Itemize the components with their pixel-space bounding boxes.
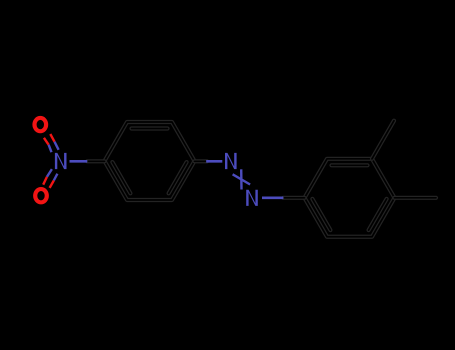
nitro double bond O2=N lower: line b red half (50, 181, 54, 188)
nitro double bond O1=N upper: line b red half (50, 134, 54, 142)
nitro double bond O2=N lower: line a blue half (47, 169, 52, 177)
atom N nitro (55, 153, 67, 169)
nitro double bond O2=N lower: line a red half (43, 177, 47, 185)
bond N2-ring2 carbon half (ghost) (283, 196, 304, 200)
azo crossed double bond N1=N2: line b (shallow diagonal) (233, 174, 251, 184)
bond N(nitro)-ring1 nitrogen half (blue) (70, 160, 88, 163)
nitro double bond O2=N lower: line b blue half (54, 174, 58, 181)
nitro double bond O1=N upper: line b blue half (55, 142, 59, 150)
azo crossed double bond N1=N2: line a (vertical) (240, 169, 243, 189)
bond N(nitro)-ring1 carbon half (ghost) (87, 159, 104, 163)
nitro double bond O1=N upper: line a red half (44, 138, 49, 145)
methyl stub on ring2 right vertex (395, 196, 437, 200)
methyl stub on ring2 top-right vertex (372, 121, 394, 159)
ring benzene 1 (ghost carbon skeleton with kekule double bonds) (105, 122, 195, 200)
atom O2 (lower oxygen) (33, 187, 49, 204)
atom O1 (upper oxygen) (32, 116, 48, 133)
atom N2 azo (246, 190, 258, 206)
bond ring1-N1 carbon half (ghost) (195, 159, 208, 163)
bond N2-ring2 nitrogen half (blue) (262, 196, 283, 199)
bond ring1-N1 nitrogen half (blue) (206, 160, 222, 163)
nitro double bond O1=N upper: line a blue half (49, 145, 52, 153)
ring benzene 2 (ghost carbon skeleton with kekule double bonds) (305, 159, 395, 237)
atom N1 azo (225, 153, 237, 169)
